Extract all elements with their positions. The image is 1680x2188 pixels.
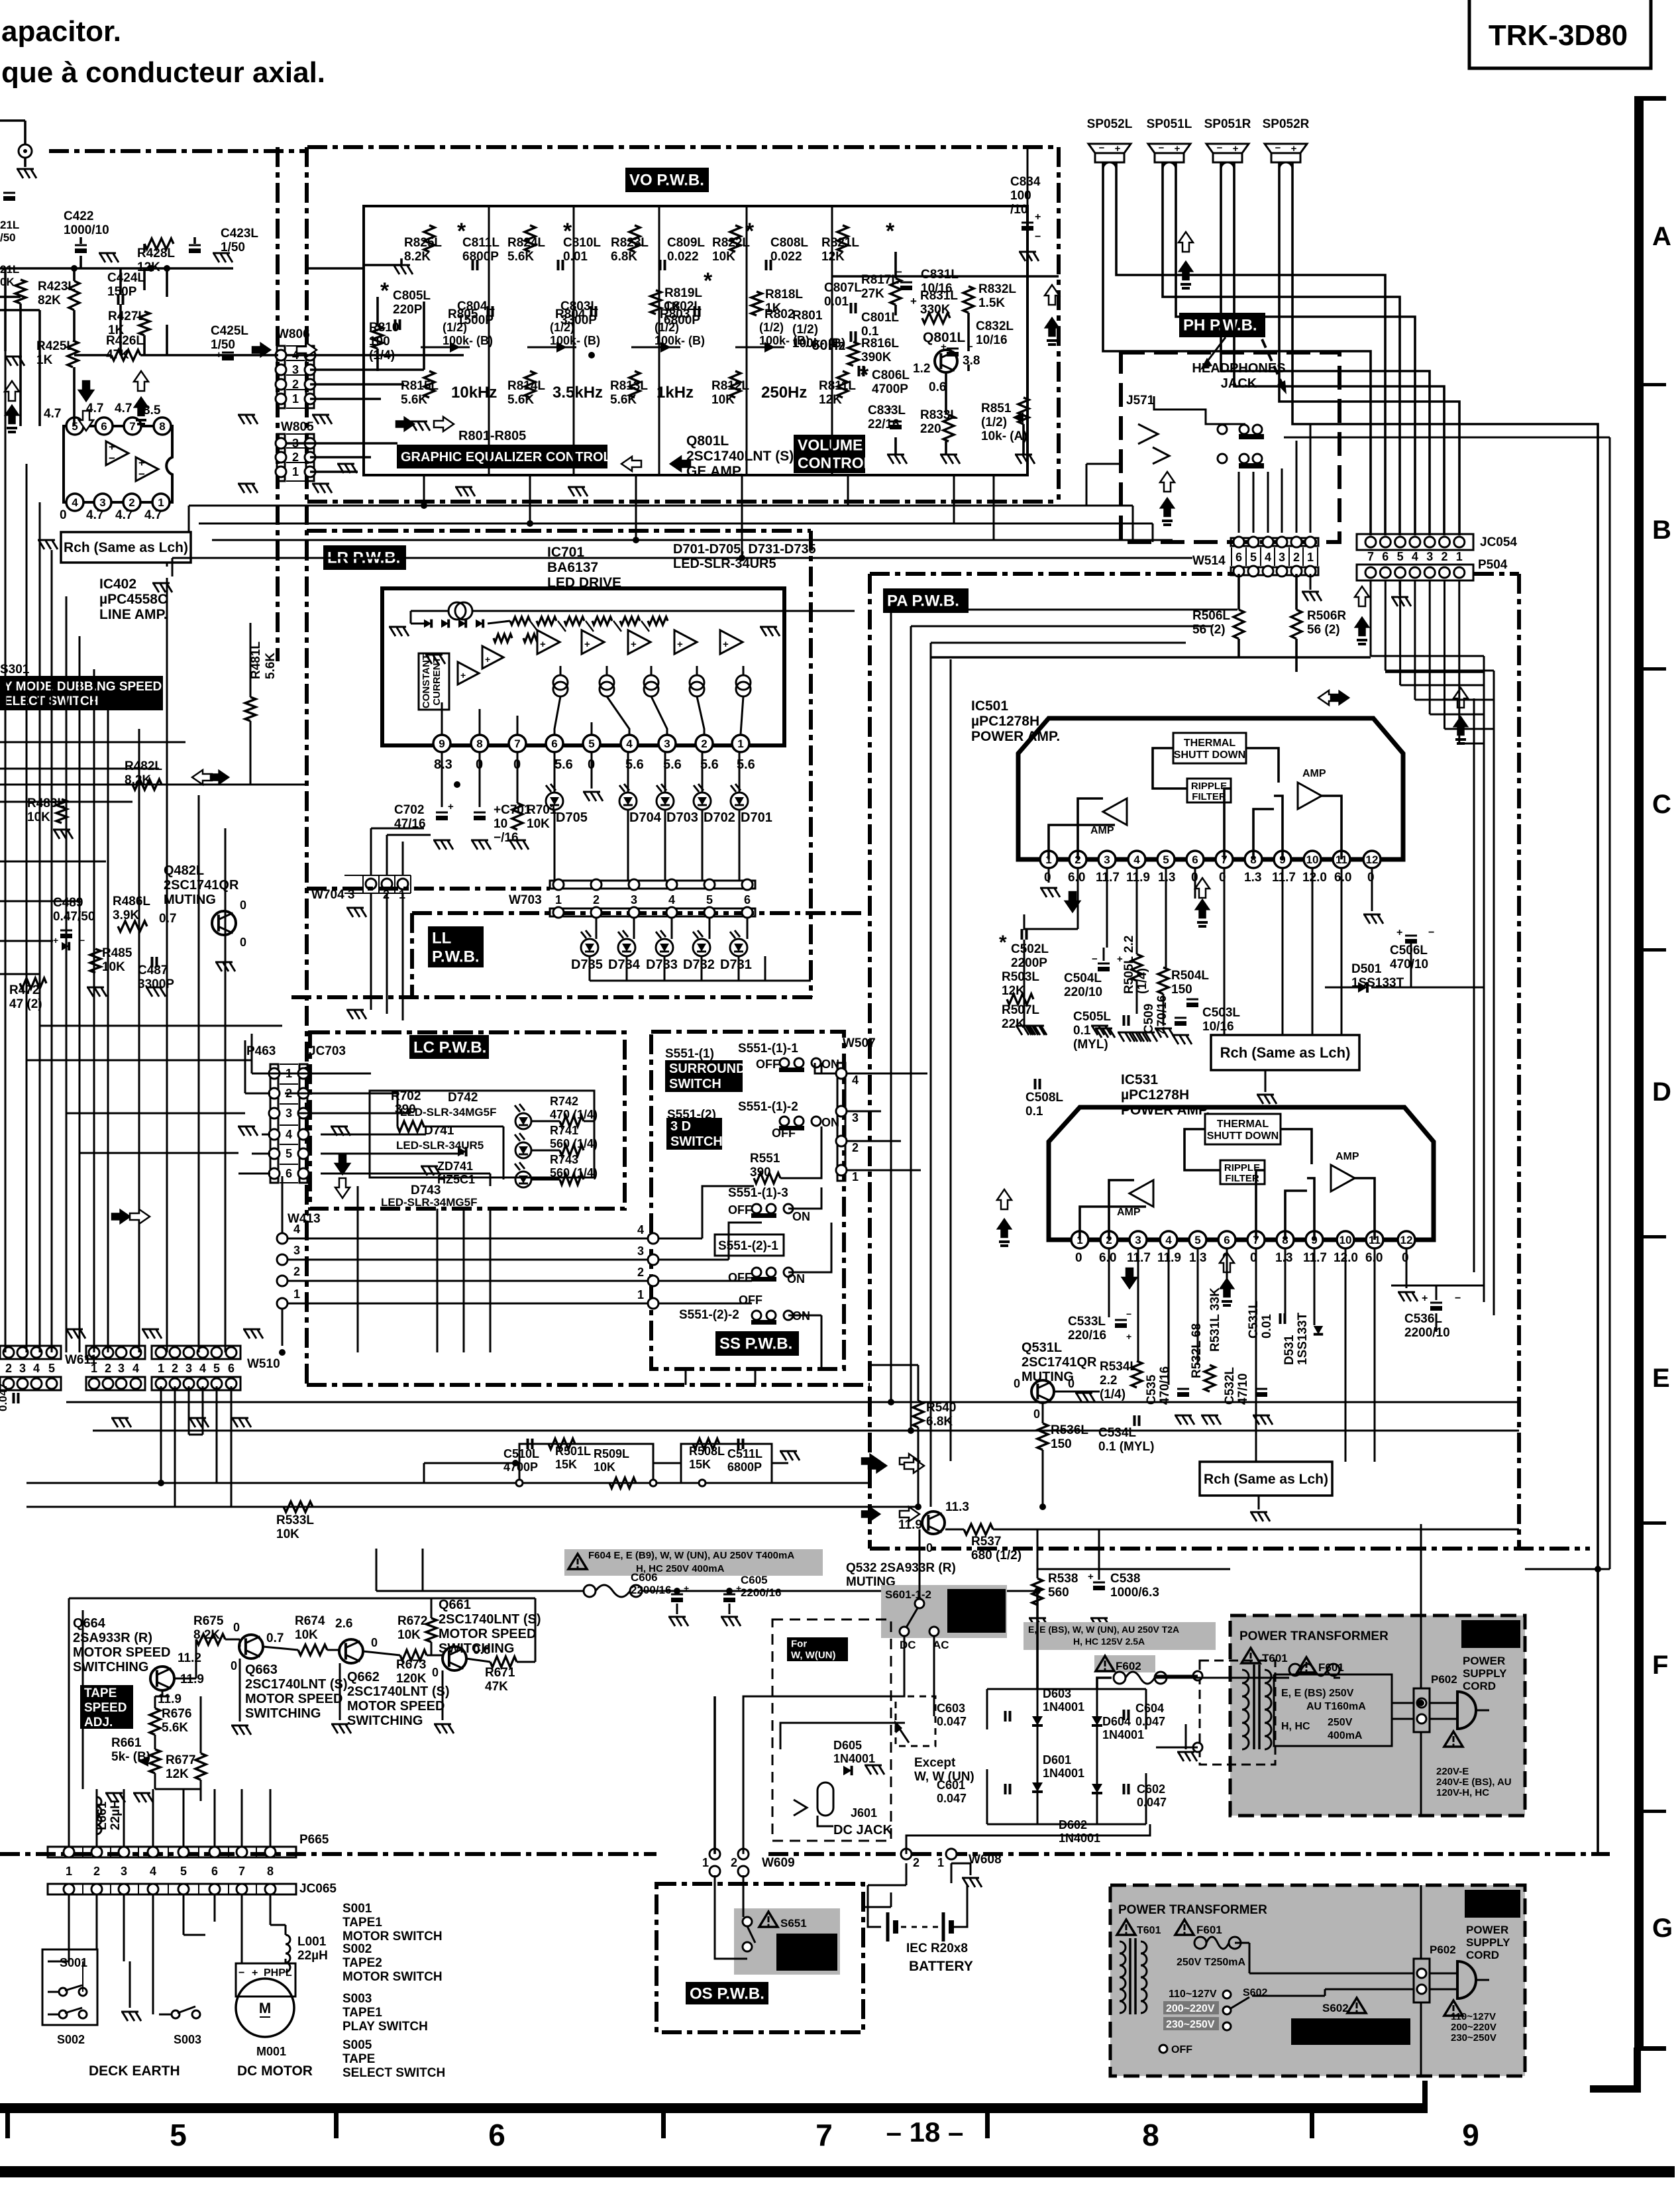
label SS P.W.B. <box>715 1331 799 1356</box>
power plug 2 <box>1457 1961 1476 1998</box>
svg-text:+: + <box>684 1583 689 1594</box>
svg-text:4: 4 <box>1412 550 1418 563</box>
svg-text:CURRENT: CURRENT <box>431 657 443 705</box>
svg-text:56 (2): 56 (2) <box>1307 623 1340 637</box>
IC501 pins <box>1040 851 1057 868</box>
svg-text:(MYL): (MYL) <box>1073 1038 1108 1052</box>
grounds transistors <box>239 1659 241 1722</box>
svg-text:4: 4 <box>1165 1234 1172 1246</box>
battery <box>858 1908 941 1927</box>
svg-text:Q531L: Q531L <box>1022 1340 1062 1355</box>
svg-text:POWER AMP.: POWER AMP. <box>971 729 1060 744</box>
grounds R661 <box>105 1793 125 1802</box>
svg-text:1: 1 <box>158 1362 164 1375</box>
label PH P.W.B. <box>1179 313 1265 337</box>
switch S651 <box>734 1908 840 1975</box>
arrow marks near speakers <box>1179 232 1193 252</box>
svg-text:C806L: C806L <box>872 368 910 382</box>
svg-text:10: 10 <box>1306 853 1319 866</box>
svg-text:2: 2 <box>593 893 600 906</box>
svg-text:S651: S651 <box>780 1917 807 1930</box>
grounds PA mid <box>1016 1026 1035 1035</box>
svg-text:D701-D705, D731-D735: D701-D705, D731-D735 <box>673 542 816 557</box>
svg-text:3: 3 <box>118 1362 125 1375</box>
connector W608 <box>901 1849 912 1859</box>
label VOLUME CONTROL <box>794 435 865 473</box>
wire below JC065 <box>68 1894 70 1961</box>
svg-text:apacitor.: apacitor. <box>1 15 121 48</box>
wire LED to W703 <box>554 810 556 881</box>
svg-text:R531L 33K: R531L 33K <box>1208 1287 1222 1352</box>
svg-text:R671: R671 <box>485 1666 515 1680</box>
svg-text:0.047: 0.047 <box>937 1792 967 1805</box>
svg-text:+: + <box>631 639 637 650</box>
svg-text:R818L: R818L <box>765 288 803 301</box>
DC JACK box <box>772 1619 891 1841</box>
svg-text:−: − <box>1126 1309 1131 1319</box>
svg-text:R503L: R503L <box>1002 970 1039 984</box>
svg-text:TAPE1: TAPE1 <box>342 2006 382 2020</box>
svg-text:*: * <box>999 932 1007 954</box>
box Rch same as Lch (IC501) <box>1211 1035 1359 1070</box>
svg-text:2: 2 <box>1293 551 1300 564</box>
connector W806 <box>277 346 285 408</box>
LED D743 <box>515 1172 531 1187</box>
svg-text:OFF: OFF <box>739 1293 762 1307</box>
svg-text:THERMAL: THERMAL <box>1217 1119 1269 1130</box>
svg-text:C534L: C534L <box>1098 1426 1136 1440</box>
svg-text:C503L: C503L <box>1202 1006 1240 1020</box>
svg-text:5: 5 <box>588 738 594 750</box>
svg-text:4700P: 4700P <box>503 1460 538 1474</box>
svg-text:F604 E, E (B9), W, W (UN), AU: F604 E, E (B9), W, W (UN), AU 250V T400m… <box>588 1550 794 1561</box>
ground misc1 <box>568 487 588 496</box>
svg-text:+: + <box>540 639 546 650</box>
svg-text:C510L: C510L <box>503 1447 539 1460</box>
svg-text:3: 3 <box>1426 550 1433 563</box>
connector W704 <box>344 875 411 876</box>
svg-text:60Hz: 60Hz <box>812 337 845 353</box>
svg-text:R677: R677 <box>166 1753 195 1767</box>
wire SS internals <box>658 1238 702 1240</box>
svg-text:D702: D702 <box>704 810 735 825</box>
svg-text:AMP: AMP <box>1117 1207 1141 1218</box>
svg-text:MUTING: MUTING <box>164 893 216 907</box>
switch S551-(2)-1 <box>715 1234 784 1256</box>
svg-text:SWITCH: SWITCH <box>670 1134 723 1149</box>
svg-text:S551-(1)-2: S551-(1)-2 <box>738 1100 798 1114</box>
svg-text:6: 6 <box>551 738 557 750</box>
svg-text:R801: R801 <box>792 309 823 323</box>
svg-text:1SS133T: 1SS133T <box>1296 1312 1310 1365</box>
wire motor block <box>69 1598 535 1600</box>
svg-text:*: * <box>380 278 390 303</box>
svg-text:82K: 82K <box>38 294 61 307</box>
svg-text:10K: 10K <box>397 1628 421 1642</box>
svg-text:R819L: R819L <box>664 286 702 300</box>
label LC P.W.B. <box>409 1035 489 1059</box>
svg-text:5.6: 5.6 <box>554 757 573 772</box>
wire bridge to fuse <box>1097 1678 1112 1689</box>
svg-text:5.6K: 5.6K <box>507 393 534 407</box>
svg-text:6: 6 <box>211 1865 218 1878</box>
svg-text:Q482L: Q482L <box>164 863 204 878</box>
svg-text:+: + <box>886 404 892 415</box>
svg-text:TRK-3D80: TRK-3D80 <box>1489 19 1628 52</box>
connector W703 <box>550 881 755 889</box>
svg-text:0: 0 <box>371 1636 378 1649</box>
svg-text:8.3: 8.3 <box>434 757 452 772</box>
svg-text:Q801L: Q801L <box>923 330 965 345</box>
svg-text:MOTOR SPEED: MOTOR SPEED <box>347 1699 445 1714</box>
svg-text:CONTROL: CONTROL <box>798 454 873 471</box>
svg-text:11.7: 11.7 <box>1272 871 1296 885</box>
svg-text:+: + <box>448 801 454 812</box>
svg-text:−: − <box>1217 142 1223 154</box>
IC IC701 <box>382 588 784 745</box>
svg-text:2: 2 <box>701 738 707 750</box>
connector W507 <box>837 1063 845 1181</box>
svg-text:POWER: POWER <box>1463 1655 1505 1667</box>
svg-text:22µH: 22µH <box>109 1800 123 1830</box>
svg-text:0: 0 <box>1068 1377 1075 1390</box>
svg-text:M001: M001 <box>256 2045 286 2058</box>
svg-text:+: + <box>1396 927 1402 938</box>
svg-text:12: 12 <box>1400 1234 1413 1246</box>
svg-text:0.047: 0.047 <box>937 1715 967 1728</box>
svg-text:W514: W514 <box>1192 554 1226 568</box>
svg-text:10: 10 <box>494 817 507 831</box>
svg-text:C423L: C423L <box>221 227 258 241</box>
svg-text:Rch (Same as Lch): Rch (Same as Lch) <box>64 540 188 555</box>
svg-text:D734: D734 <box>608 957 641 972</box>
svg-text:2.2: 2.2 <box>1100 1374 1117 1388</box>
svg-text:R802: R802 <box>764 307 794 321</box>
svg-text:LINE AMP.: LINE AMP. <box>99 607 168 622</box>
svg-text:0: 0 <box>1014 1377 1020 1390</box>
junction dots <box>421 502 427 509</box>
svg-text:G: G <box>1652 1914 1673 1943</box>
svg-text:*: * <box>745 219 755 244</box>
wire P665 feeds <box>68 1789 70 1847</box>
svg-text:8: 8 <box>476 738 482 750</box>
wire left bus <box>0 267 233 270</box>
svg-text:OFF: OFF <box>728 1203 752 1217</box>
resistor R671 <box>490 1657 517 1667</box>
svg-text:TAPE2: TAPE2 <box>342 1956 382 1970</box>
diode muting <box>62 942 69 951</box>
svg-text:220/16: 220/16 <box>1068 1329 1106 1342</box>
svg-text:+: + <box>1422 1293 1428 1304</box>
svg-text:470/16: 470/16 <box>1158 1366 1172 1405</box>
ground IC531 pins <box>1406 1249 1408 1288</box>
svg-text:TAPE: TAPE <box>84 1686 117 1700</box>
svg-text:R538: R538 <box>1048 1572 1078 1586</box>
wire S651 <box>714 1875 716 1935</box>
arrows left mid <box>335 1154 350 1174</box>
svg-text:1.3: 1.3 <box>1275 1251 1292 1265</box>
label SURROUND SWITCH <box>665 1060 743 1092</box>
svg-text:−: − <box>79 935 85 946</box>
wire W806 feeds <box>286 354 464 356</box>
box thermal shutdown IC531 <box>1205 1114 1281 1144</box>
svg-text:D703: D703 <box>666 810 698 825</box>
svg-text:LC P.W.B.: LC P.W.B. <box>413 1039 486 1057</box>
svg-text:220P: 220P <box>393 303 423 317</box>
grounds near P463 <box>238 1126 258 1136</box>
svg-text:S001: S001 <box>342 1902 372 1916</box>
label LL P.W.B. <box>428 926 484 967</box>
transformer secondary frame <box>1274 1674 1392 1746</box>
svg-text:ON: ON <box>792 1210 810 1223</box>
svg-text:POWER: POWER <box>1466 1924 1508 1936</box>
svg-text:8: 8 <box>267 1865 274 1878</box>
label 3D SWITCH <box>666 1118 722 1150</box>
svg-text:1: 1 <box>852 1170 859 1183</box>
wire bus E3 <box>26 1482 870 1484</box>
svg-text:C511L: C511L <box>727 1447 762 1460</box>
svg-text:Rch (Same as Lch): Rch (Same as Lch) <box>1220 1044 1351 1061</box>
svg-text:−: − <box>1455 1293 1461 1304</box>
PWB boundary dash line x463 <box>305 147 309 1385</box>
svg-text:2SC1740LNT (S): 2SC1740LNT (S) <box>686 449 794 464</box>
svg-text:−/16: −/16 <box>494 831 519 845</box>
warning T601b <box>1117 1920 1135 1935</box>
capacitor C604 <box>1124 1710 1129 1720</box>
wire top-left stub <box>0 119 25 122</box>
svg-text:2200/10: 2200/10 <box>1404 1326 1450 1340</box>
svg-text:D733: D733 <box>646 957 678 972</box>
svg-text:D735: D735 <box>571 957 603 972</box>
svg-text:P665: P665 <box>299 1833 329 1847</box>
dash segment LR bottom <box>307 887 550 891</box>
svg-text:6: 6 <box>1382 550 1389 563</box>
svg-text:S551-(1)-1: S551-(1)-1 <box>738 1042 798 1056</box>
svg-text:µPC1278H: µPC1278H <box>971 714 1039 729</box>
svg-text:P.W.B.: P.W.B. <box>432 948 480 966</box>
LEDs D735-D731 <box>581 939 598 956</box>
outer P.W.B. outline bottom <box>307 1383 870 1387</box>
svg-text:+: + <box>1088 1571 1094 1582</box>
label VO P.W.B. <box>625 168 709 192</box>
svg-text:10K: 10K <box>27 810 50 824</box>
svg-text:0.7: 0.7 <box>266 1631 284 1645</box>
svg-text:T601: T601 <box>1137 1925 1161 1936</box>
svg-text:4: 4 <box>132 1362 139 1375</box>
svg-text:*: * <box>704 268 713 294</box>
svg-text:OFF: OFF <box>1171 2044 1192 2055</box>
op-amp IC402 <box>64 426 172 502</box>
svg-text:E, E (BS), W, W (UN), AU 250V: E, E (BS), W, W (UN), AU 250V T2A <box>1028 1624 1179 1635</box>
switch S003 <box>172 2010 180 2018</box>
fuse F601a <box>1289 1664 1301 1676</box>
arrows mid-left <box>79 381 93 401</box>
svg-text:H, HC 125V 2.5A: H, HC 125V 2.5A <box>1073 1636 1145 1647</box>
svg-text:MOTOR SPEED: MOTOR SPEED <box>73 1645 170 1660</box>
svg-text:0.7: 0.7 <box>159 912 176 926</box>
bridge rect wires <box>987 1688 1146 1690</box>
svg-text:6800P: 6800P <box>462 250 499 264</box>
svg-text:5: 5 <box>170 2118 187 2152</box>
svg-text:+: + <box>1035 211 1041 223</box>
svg-text:C805L: C805L <box>393 289 431 303</box>
svg-text:SS P.W.B.: SS P.W.B. <box>719 1335 792 1353</box>
resistor R538 <box>1032 1578 1043 1605</box>
wire W704 <box>370 828 372 875</box>
connector W805 <box>277 434 285 481</box>
svg-text:C801L: C801L <box>861 311 899 325</box>
connector W609 <box>709 1849 720 1859</box>
svg-text:W, W(UN): W, W(UN) <box>791 1649 835 1661</box>
svg-text:100k- (B): 100k- (B) <box>759 334 810 347</box>
svg-text:C425L: C425L <box>211 324 248 338</box>
svg-text:ZD741: ZD741 <box>437 1160 473 1173</box>
svg-text:2: 2 <box>5 1362 12 1375</box>
svg-text:4: 4 <box>637 1223 644 1236</box>
svg-text:0: 0 <box>1367 871 1375 885</box>
OS P.W.B. outline box <box>656 1884 863 2032</box>
svg-text:47/10: 47/10 <box>1236 1373 1250 1405</box>
wire bus E4 <box>26 1506 918 1508</box>
box ripple filter IC531 <box>1220 1160 1265 1184</box>
svg-text:5: 5 <box>706 893 713 906</box>
connector P504 <box>1357 565 1473 580</box>
wire JC703 right leads <box>321 1073 371 1075</box>
svg-text:IC402: IC402 <box>99 576 136 592</box>
svg-text:1N4001: 1N4001 <box>1102 1728 1144 1741</box>
svg-text:0.01: 0.01 <box>824 295 849 309</box>
svg-text:que à conducteur axial.: que à conducteur axial. <box>1 56 325 89</box>
svg-text:SWITCHING: SWITCHING <box>347 1714 423 1728</box>
svg-text:3.5kHz: 3.5kHz <box>552 384 603 402</box>
svg-text:4: 4 <box>286 1128 292 1141</box>
svg-text:W608: W608 <box>969 1853 1002 1867</box>
svg-text:R833L: R833L <box>920 408 958 422</box>
svg-text:6: 6 <box>1224 1234 1230 1246</box>
wire LC drop verticals <box>437 1209 439 1352</box>
svg-text:11.3: 11.3 <box>945 1500 969 1514</box>
svg-text:L001: L001 <box>297 1935 327 1949</box>
svg-text:3: 3 <box>185 1362 192 1375</box>
svg-text:C508L: C508L <box>1025 1091 1063 1105</box>
svg-text:W703: W703 <box>509 893 542 907</box>
svg-text:0.022: 0.022 <box>770 250 802 264</box>
svg-text:C509: C509 <box>1142 1004 1156 1034</box>
svg-text:10K: 10K <box>527 817 550 831</box>
svg-text:D732: D732 <box>683 957 715 972</box>
svg-text:C504L: C504L <box>1064 971 1102 985</box>
svg-text:5.6K: 5.6K <box>162 1721 188 1735</box>
power transformer T601 block 2 <box>1110 1885 1525 2076</box>
svg-text:LED-SLR-34MG5F: LED-SLR-34MG5F <box>381 1196 477 1209</box>
wire headphone common <box>1222 434 1223 454</box>
svg-text:D704: D704 <box>629 810 662 825</box>
ground top-left <box>17 169 36 178</box>
svg-text:110~127V: 110~127V <box>1169 1989 1217 2000</box>
svg-text:R823L: R823L <box>611 236 649 250</box>
svg-text:THERMAL: THERMAL <box>1184 738 1235 749</box>
svg-text:3: 3 <box>631 893 637 906</box>
IC IC501 outline <box>1018 718 1403 859</box>
svg-text:100k- (B): 100k- (B) <box>443 334 493 347</box>
svg-text:1: 1 <box>1307 551 1314 564</box>
svg-text:2: 2 <box>637 1266 644 1279</box>
svg-text:C605: C605 <box>741 1574 768 1586</box>
ground W805 left <box>238 484 258 493</box>
svg-text:4: 4 <box>1265 551 1271 564</box>
fuse F602 <box>1114 1672 1126 1684</box>
svg-text:POWER TRANSFORMER: POWER TRANSFORMER <box>1239 1629 1389 1643</box>
svg-text:C832L: C832L <box>976 319 1014 333</box>
svg-text:+: + <box>723 639 729 650</box>
svg-text:3: 3 <box>19 1362 26 1375</box>
ground W514 pin1 <box>1310 574 1312 590</box>
svg-text:R661: R661 <box>111 1736 142 1750</box>
svg-text:OS P.W.B.: OS P.W.B. <box>690 1985 764 2003</box>
wire JC703 taps <box>270 1073 358 1075</box>
amp triangles IC531 <box>1129 1180 1153 1207</box>
svg-text:DC JACK: DC JACK <box>833 1823 892 1837</box>
connector P665 JC065 <box>48 1847 296 1857</box>
wire right long verticals <box>1597 424 1599 1854</box>
svg-text:−: − <box>1035 231 1041 243</box>
svg-text:1: 1 <box>737 738 743 750</box>
svg-text:5: 5 <box>213 1362 220 1375</box>
svg-text:−: − <box>1428 927 1434 938</box>
svg-text:5: 5 <box>1163 853 1169 866</box>
svg-text:1kHz: 1kHz <box>656 384 694 402</box>
bottom grid scale with column numbers <box>0 2103 1428 2113</box>
svg-text:D743: D743 <box>411 1183 441 1197</box>
connector JC054 <box>1357 534 1473 550</box>
svg-text:SWITCHING: SWITCHING <box>73 1660 148 1674</box>
svg-text:400mA: 400mA <box>1328 1730 1363 1741</box>
transistor Q662 <box>339 1639 363 1663</box>
svg-text:0: 0 <box>1044 871 1051 885</box>
svg-text:3: 3 <box>664 738 670 750</box>
svg-text:R482L: R482L <box>125 759 162 773</box>
svg-text:0.022: 0.022 <box>667 250 699 264</box>
svg-text:C606: C606 <box>631 1571 658 1584</box>
LR P.W.B. outline box <box>307 529 811 533</box>
svg-text:R743: R743 <box>550 1153 578 1166</box>
svg-text:LED-SLR-34UR5: LED-SLR-34UR5 <box>396 1139 484 1152</box>
svg-text:J601: J601 <box>851 1806 877 1820</box>
wire left verticals <box>5 351 7 1352</box>
amp triangles IC501 <box>1103 798 1127 825</box>
svg-text:Q663: Q663 <box>245 1663 278 1677</box>
gray label F604 <box>564 1549 823 1576</box>
svg-text:A: A <box>1652 222 1671 251</box>
svg-text:10K: 10K <box>594 1460 615 1474</box>
svg-text:8: 8 <box>159 420 165 433</box>
svg-text:470/10: 470/10 <box>1390 957 1428 971</box>
box ripple filter IC501 <box>1187 779 1231 802</box>
svg-text:µPC1278H: µPC1278H <box>1121 1087 1189 1103</box>
svg-text:W510: W510 <box>247 1357 280 1371</box>
svg-text:PLAY SWITCH: PLAY SWITCH <box>342 2020 428 2034</box>
wire into T601 <box>1420 1524 1422 1688</box>
transformer primary dashed box <box>1200 1661 1275 1765</box>
svg-text:DC: DC <box>900 1639 916 1651</box>
wire P463 left leads <box>252 1073 270 1075</box>
IC531 internal wires <box>1080 1207 1146 1240</box>
svg-text:47K: 47K <box>485 1680 508 1694</box>
svg-text:680 (1/2): 680 (1/2) <box>971 1549 1022 1562</box>
svg-text:5: 5 <box>48 1362 55 1375</box>
svg-text:C531L: C531L <box>1247 1301 1261 1339</box>
black label cord 1 <box>1461 1620 1520 1648</box>
